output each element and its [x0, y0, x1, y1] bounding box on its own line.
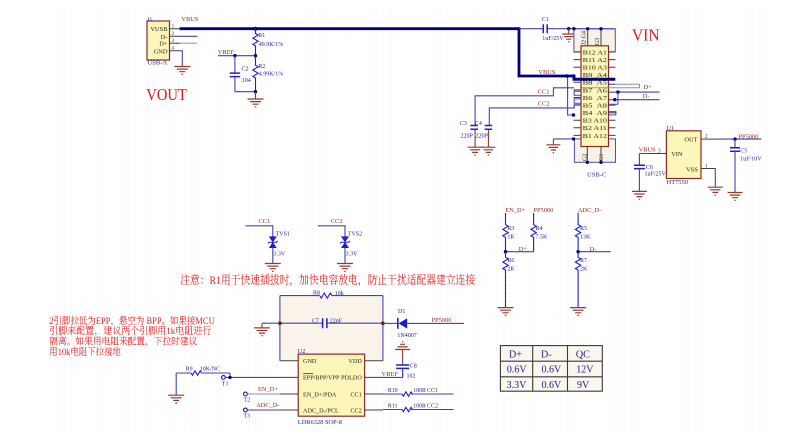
ground at USB-C shell	[552, 139, 554, 145]
wire J1 GND pin	[180, 51, 183, 67]
inverted ground above C8	[402, 350, 404, 366]
resistor R6	[503, 252, 508, 308]
R8/C7 loop fill region	[280, 296, 382, 360]
svg-text:ADC_D-: ADC_D-	[256, 402, 279, 409]
svg-text:R7: R7	[580, 258, 587, 264]
svg-text:C2: C2	[242, 67, 249, 73]
wire thick VBUS bar through USB-C	[573, 78, 616, 81]
ground at C4	[481, 147, 495, 155]
wire R9 to ground	[175, 373, 177, 395]
svg-text:C3: C3	[460, 121, 467, 127]
svg-text:GND: GND	[154, 48, 168, 55]
resistor R5	[575, 213, 580, 252]
junction VREF/R2	[254, 54, 257, 57]
ground at C5	[728, 193, 743, 201]
svg-text:R9: R9	[186, 366, 193, 372]
junction C5	[733, 137, 736, 140]
svg-text:EPP/BPP/VPP: EPP/BPP/VPP	[303, 375, 340, 382]
svg-text:用10k电阻下拉接地: 用10k电阻下拉接地	[49, 346, 121, 358]
wire thick VBUS vertical	[518, 27, 521, 76]
svg-text:B2 A11: B2 A11	[583, 125, 607, 132]
svg-text:J1: J1	[147, 16, 153, 23]
svg-text:D-: D-	[643, 93, 650, 100]
wire T2 to EN_D+ pin	[247, 393, 280, 395]
svg-text:10k: 10k	[335, 291, 344, 297]
svg-text:3.3V: 3.3V	[507, 380, 527, 391]
svg-text:VSS: VSS	[686, 166, 698, 173]
svg-text:22nF: 22nF	[330, 318, 343, 324]
wire thick VBUS lower horizontal	[518, 75, 574, 78]
svg-text:1: 1	[705, 163, 708, 169]
wire TVS1 to ground	[272, 248, 274, 264]
svg-text:B3 A10: B3 A10	[583, 118, 607, 125]
IC U2 box	[298, 354, 364, 416]
svg-text:104: 104	[242, 78, 251, 84]
svg-text:J2 G4: J2 G4	[581, 31, 587, 45]
wire C2/R2 bottom rail	[235, 91, 256, 93]
capacitor C1	[519, 28, 615, 30]
svg-text:TVS2: TVS2	[348, 232, 362, 238]
svg-text:LDR6328 SOP-8: LDR6328 SOP-8	[298, 419, 342, 426]
svg-text:R5: R5	[580, 226, 587, 232]
svg-text:C1: C1	[542, 17, 549, 23]
pin 1 wire VSS	[701, 169, 715, 188]
svg-text:OUT: OUT	[684, 137, 697, 144]
svg-text:R4: R4	[536, 226, 543, 232]
svg-text:B7 A6: B7 A6	[583, 87, 607, 94]
svg-text:ADC_D-: ADC_D-	[578, 207, 601, 214]
svg-text:CC1: CC1	[427, 387, 438, 394]
wire loop at A9	[609, 112, 616, 115]
ground below R6	[498, 308, 514, 316]
pin G3 vertical	[600, 29, 602, 46]
svg-text:CC2: CC2	[427, 403, 438, 410]
svg-text:3.3V: 3.3V	[346, 251, 359, 257]
pin G4 vertical	[587, 29, 589, 46]
left pin stubs	[574, 52, 582, 135]
svg-text:B6 A7: B6 A7	[583, 95, 608, 102]
svg-text:3: 3	[172, 38, 175, 44]
table QC voltages	[500, 346, 602, 392]
wire loop at B6	[574, 99, 581, 103]
svg-text:CC1: CC1	[538, 89, 550, 96]
svg-text:U2: U2	[298, 348, 306, 355]
wire A6 down jog	[609, 92, 618, 104]
junction dots bottom shell	[586, 161, 589, 164]
svg-text:VBUS: VBUS	[639, 147, 656, 154]
svg-text:CC1: CC1	[350, 391, 361, 398]
svg-text:1: 1	[172, 24, 175, 30]
junction VREF/C2	[233, 54, 236, 57]
wire D- from A7	[615, 99, 659, 101]
svg-text:ADC_D-/PCL: ADC_D-/PCL	[303, 407, 339, 414]
wire loop right vertical	[382, 296, 384, 361]
svg-text:D-: D-	[541, 349, 552, 360]
svg-text:PP5000: PP5000	[533, 207, 553, 214]
junction dots C7	[278, 321, 282, 325]
resistor R2	[253, 56, 258, 92]
svg-text:注意：R1用于快速插拔时，加快电容放电，防止干扰适配器建立连: 注意：R1用于快速插拔时，加快电容放电，防止干扰适配器建立连接	[180, 273, 475, 287]
svg-text:100R: 100R	[413, 388, 426, 394]
wire loop at A5 return	[582, 84, 640, 88]
ground left of C7	[261, 323, 263, 328]
ground at VSS	[708, 187, 723, 195]
wire R9 down to EPP row	[225, 373, 280, 377]
USB-C bottom shell box	[574, 139, 615, 162]
svg-text:13K: 13K	[580, 234, 591, 240]
wire USB-C bottom left to ground	[553, 138, 574, 140]
wire TVS2 to ground	[344, 248, 346, 264]
svg-text:VBUS: VBUS	[181, 16, 198, 23]
svg-text:1uF/25V: 1uF/25V	[645, 171, 667, 177]
svg-text:VIN: VIN	[632, 26, 660, 45]
svg-text:R2: R2	[258, 64, 265, 70]
svg-text:49.9K/1%: 49.9K/1%	[259, 42, 284, 48]
svg-text:R1: R1	[258, 33, 265, 39]
right pin stubs	[609, 52, 616, 135]
svg-text:引脚来配置，建议两个引脚用1k电阻进行: 引脚来配置，建议两个引脚用1k电阻进行	[49, 325, 211, 337]
svg-text:USB-A: USB-A	[148, 60, 168, 67]
connector J2 USB-C top shell box	[574, 29, 615, 52]
svg-text:B5 A8: B5 A8	[583, 103, 607, 110]
svg-text:2: 2	[705, 134, 708, 140]
svg-text:R10: R10	[388, 388, 398, 394]
wire loop left vertical	[279, 296, 281, 361]
svg-text:U1: U1	[667, 125, 675, 132]
svg-text:C7: C7	[312, 318, 319, 324]
svg-text:C5: C5	[740, 148, 747, 154]
capacitor C3	[470, 126, 478, 130]
svg-text:CC2: CC2	[538, 101, 550, 108]
capacitor C5	[734, 139, 736, 148]
wire CC1 to C3 and USB-C	[475, 88, 574, 125]
svg-text:D1: D1	[398, 309, 405, 315]
svg-text:1uF/25V: 1uF/25V	[542, 36, 564, 42]
wire D+ from J1	[180, 42, 197, 44]
ground at C1	[568, 29, 570, 34]
svg-text:B10 A3: B10 A3	[583, 65, 607, 72]
svg-text:EN_D+: EN_D+	[258, 386, 278, 393]
svg-text:D-: D-	[590, 246, 597, 253]
svg-text:100R: 100R	[413, 404, 426, 410]
svg-text:D+: D+	[509, 349, 522, 360]
svg-text:C4: C4	[475, 121, 482, 127]
ground at TVS1	[265, 264, 281, 272]
USB-C main body box	[581, 46, 609, 147]
wire D- node	[578, 251, 611, 253]
wire D+ node	[506, 251, 534, 253]
pin G2 vertical	[586, 147, 588, 163]
svg-text:4: 4	[172, 46, 175, 52]
resistor R10	[383, 393, 454, 395]
svg-text:10K/NC: 10K/NC	[200, 366, 220, 372]
svg-text:T3: T3	[243, 413, 250, 419]
svg-text:12V: 12V	[576, 365, 594, 376]
resistor R7	[575, 252, 580, 308]
svg-text:2引脚拉低为EPP，悬空为 BPP。如果接MCU: 2引脚拉低为EPP，悬空为 BPP。如果接MCU	[49, 315, 214, 327]
U2 left pin stubs	[280, 361, 298, 410]
wire CC1 to TVS1	[246, 226, 273, 237]
ground at C3	[468, 147, 483, 155]
svg-text:2K: 2K	[580, 267, 588, 273]
svg-text:0.6V: 0.6V	[507, 365, 528, 376]
regulator U1 box	[666, 131, 701, 179]
svg-text:G2: G2	[583, 154, 589, 161]
svg-text:1N4007: 1N4007	[397, 333, 416, 339]
testpoint T1	[222, 376, 226, 380]
U2 right pin stubs	[365, 361, 383, 410]
junction VBUS/R1	[254, 27, 258, 31]
resistor R11	[383, 409, 454, 411]
svg-text:1uF/10V: 1uF/10V	[740, 157, 762, 163]
svg-text:PDLDO: PDLDO	[341, 375, 362, 382]
svg-text:9V: 9V	[577, 380, 590, 391]
junction dots top rail	[572, 27, 575, 30]
capacitor C4	[485, 126, 493, 130]
svg-text:0.6V: 0.6V	[542, 380, 563, 391]
resistor R1	[253, 29, 258, 56]
ground at TVS2	[337, 264, 353, 272]
svg-text:CC1: CC1	[259, 218, 271, 225]
diode D1	[383, 322, 398, 324]
svg-text:1K: 1K	[507, 234, 515, 240]
wire T3 to ADC pin	[247, 409, 280, 411]
capacitor C8	[396, 365, 409, 368]
pin 2 wire OUT	[701, 138, 717, 140]
TVS1 diode	[269, 237, 276, 248]
testpoint T3	[244, 408, 248, 412]
svg-text:R11: R11	[388, 404, 398, 410]
testpoint T2	[244, 392, 248, 396]
svg-text:3: 3	[658, 149, 661, 155]
resistor R9	[191, 371, 201, 375]
svg-text:CC2: CC2	[331, 218, 343, 225]
wire VBUS branch to B4	[568, 76, 574, 115]
wire to left ground	[262, 322, 280, 324]
svg-text:D+: D+	[159, 41, 168, 48]
ground below R2	[255, 92, 257, 99]
svg-text:B12 A1: B12 A1	[583, 49, 607, 56]
ground below R9	[168, 395, 184, 403]
svg-text:GND: GND	[303, 358, 317, 365]
svg-text:T2: T2	[244, 397, 251, 403]
svg-text:隔离。如果用电阻来配置，下拉时建议: 隔离。如果用电阻来配置，下拉时建议	[49, 336, 197, 348]
wire loop at B7	[574, 91, 581, 95]
wire thick VBUS horizontal	[180, 27, 519, 30]
svg-text:PP5000: PP5000	[432, 317, 452, 324]
capacitor C7	[280, 322, 383, 324]
svg-text:VBUS: VBUS	[538, 69, 555, 76]
pin 3 wire VIN	[650, 153, 666, 155]
svg-text:CC2: CC2	[350, 407, 361, 414]
connector J1 USB-A	[147, 21, 170, 60]
wire CC2 to TVS2	[318, 226, 345, 237]
svg-text:HT7550: HT7550	[667, 179, 688, 186]
svg-text:VOUT: VOUT	[146, 85, 187, 104]
svg-text:D+: D+	[644, 84, 653, 91]
ground at J1	[174, 67, 190, 75]
capacitor C2	[234, 56, 236, 92]
wire CC2 to C4 and USB-C	[489, 105, 581, 125]
resistor R3	[503, 213, 508, 252]
svg-text:D+: D+	[519, 246, 528, 253]
svg-text:G3: G3	[595, 38, 601, 45]
junction bottom rail	[254, 90, 257, 93]
svg-text:R3: R3	[507, 226, 514, 232]
svg-text:7.5K: 7.5K	[536, 234, 549, 240]
pin rows B12A1..B1A12	[583, 49, 608, 140]
svg-text:4.99K/1%: 4.99K/1%	[259, 72, 284, 78]
wire D+ from A6	[615, 91, 659, 93]
capacitor C6	[638, 154, 640, 166]
svg-text:VREF: VREF	[382, 371, 399, 378]
svg-text:QC: QC	[576, 349, 590, 360]
svg-text:VIN: VIN	[671, 151, 683, 158]
svg-text:B4 A9: B4 A9	[583, 110, 607, 117]
resistor R8	[320, 293, 332, 298]
ground below R7	[570, 308, 586, 316]
svg-text:2K: 2K	[507, 267, 515, 273]
wire VREF	[218, 55, 256, 57]
svg-text:220P: 220P	[476, 133, 489, 139]
svg-text:R8: R8	[313, 290, 320, 296]
wire VREF PDLDO to C8	[383, 368, 403, 377]
svg-text:EN_D+: EN_D+	[505, 207, 525, 214]
svg-text:VDD: VDD	[348, 358, 362, 365]
wire D- from J1	[180, 35, 198, 37]
svg-text:C6: C6	[646, 165, 653, 171]
TVS2 diode	[342, 237, 349, 248]
svg-text:C8: C8	[410, 364, 417, 370]
svg-text:220P: 220P	[461, 133, 474, 139]
svg-text:T1: T1	[222, 381, 229, 387]
pin stubs J1	[170, 29, 180, 51]
svg-text:VUSB: VUSB	[150, 26, 167, 33]
svg-text:G1: G1	[599, 154, 605, 161]
svg-text:USB-C: USB-C	[587, 171, 607, 178]
svg-text:102: 102	[407, 373, 416, 379]
svg-text:0.6V: 0.6V	[542, 365, 563, 376]
svg-text:B11 A2: B11 A2	[583, 57, 607, 64]
svg-text:EN_D+/PDA: EN_D+/PDA	[303, 391, 337, 398]
junction C1 ground	[567, 27, 570, 30]
svg-text:3.3V: 3.3V	[273, 251, 286, 257]
wire thick VBUS jog	[573, 75, 576, 80]
pin G1 vertical	[600, 147, 602, 163]
svg-text:TVS1: TVS1	[276, 232, 290, 238]
svg-text:R6: R6	[507, 258, 514, 264]
resistor R4	[531, 213, 536, 252]
ground at C6	[632, 191, 647, 199]
svg-text:2: 2	[172, 31, 175, 37]
svg-text:B1 A12: B1 A12	[583, 133, 607, 140]
svg-text:PP5000: PP5000	[739, 134, 759, 141]
